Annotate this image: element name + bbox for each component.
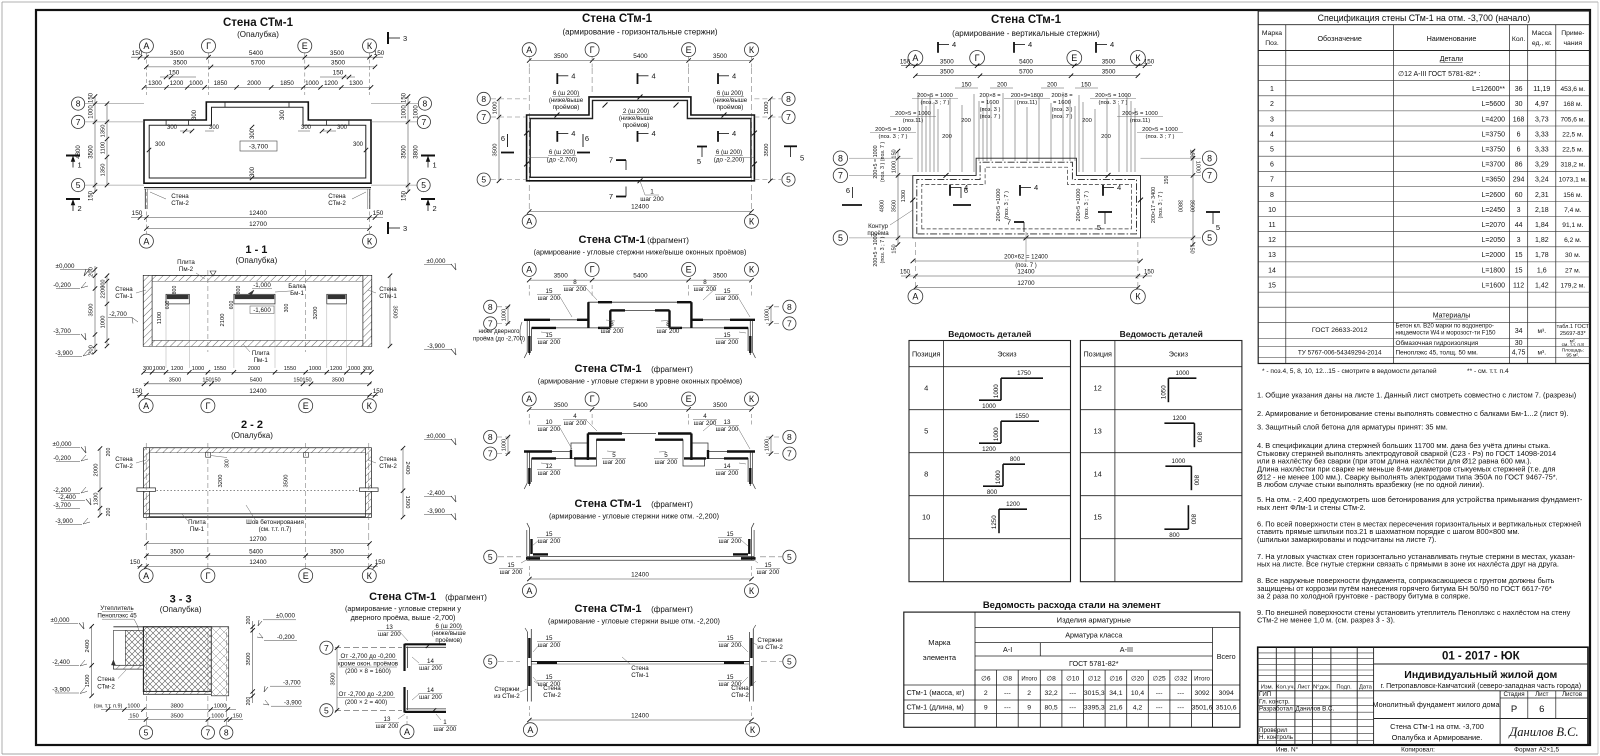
svg-text:3500: 3500: [1102, 68, 1116, 75]
svg-text:1850: 1850: [214, 80, 228, 87]
svg-text:2400: 2400: [404, 462, 410, 475]
svg-text:Стена СТм-1: Стена СТм-1: [369, 591, 436, 603]
svg-text:1000: 1000: [153, 366, 165, 372]
svg-text:8: 8: [423, 99, 428, 109]
svg-text:Данилов В.С.: Данилов В.С.: [1508, 725, 1578, 739]
svg-text:8: 8: [703, 279, 707, 286]
svg-text:800: 800: [236, 286, 242, 295]
svg-text:(фрагмент): (фрагмент): [647, 236, 689, 245]
stage sheet cells: [1500, 697, 1588, 699]
svg-text:2: 2: [78, 204, 82, 213]
svg-text:9: 9: [1027, 705, 1031, 712]
svg-text:300: 300: [301, 125, 312, 131]
svg-text:(поз. 3 ): (поз. 3 ): [1052, 107, 1073, 113]
svg-text:200: 200: [942, 134, 952, 140]
svg-text:4: 4: [1028, 40, 1032, 49]
svg-text:2: 2: [1270, 101, 1274, 108]
svg-text:Изм.: Изм.: [1261, 684, 1274, 690]
svg-text:Контур: Контур: [868, 223, 888, 230]
svg-text:Пеноплэкс 45: Пеноплэкс 45: [97, 613, 137, 620]
svg-text:2 - 2: 2 - 2: [241, 419, 263, 431]
svg-text:Опалубка и Армирование.: Опалубка и Армирование.: [1392, 733, 1483, 742]
svg-text:3,24: 3,24: [1535, 177, 1549, 184]
svg-text:179,2 м.: 179,2 м.: [1560, 282, 1585, 289]
section 2-2 concrete joint dotted line: [150, 490, 366, 492]
svg-text:7: 7: [609, 156, 613, 165]
svg-text:150: 150: [293, 377, 302, 383]
drawing B left vdim: [498, 99, 500, 181]
fragment B3 thin profile lower: [532, 440, 749, 482]
svg-text:-0,200: -0,200: [53, 455, 71, 462]
svg-text:Дата: Дата: [1359, 684, 1373, 690]
svg-text:300: 300: [280, 109, 286, 120]
svg-text:A-III: A-III: [1120, 645, 1133, 654]
svg-text:3500: 3500: [332, 377, 344, 383]
svg-text:проёма (до -2,700): проёма (до -2,700): [473, 337, 525, 343]
svg-text:2100: 2100: [220, 314, 226, 327]
svg-text:200: 200: [961, 118, 971, 124]
svg-text:15: 15: [508, 562, 515, 569]
svg-text:5400: 5400: [1019, 58, 1033, 65]
svg-text:1850: 1850: [280, 80, 294, 87]
svg-text:-3,900: -3,900: [427, 508, 445, 515]
svg-text:5: 5: [421, 180, 426, 190]
section 1-1 bottom axis circles: [139, 399, 153, 413]
dimension row 2 (3500 5700 3500): [146, 66, 375, 68]
svg-text:Стержни: Стержни: [757, 637, 783, 644]
drawing C wall contour dash-dot: [917, 162, 1137, 234]
svg-text:Разработал: Разработал: [1259, 706, 1293, 713]
svg-text:9: 9: [984, 705, 988, 712]
svg-text:1: 1: [78, 161, 82, 170]
svg-text:15: 15: [1515, 267, 1523, 274]
svg-text:2000: 2000: [247, 80, 261, 87]
svg-text:3500: 3500: [940, 58, 954, 65]
svg-text:150: 150: [129, 713, 138, 719]
svg-text:(шпильки замаркированы и подсч: (шпильки замаркированы и подсчитаны на л…: [1257, 535, 1436, 544]
drawing B axis row top: [522, 43, 536, 57]
svg-text:5: 5: [838, 233, 843, 243]
section 3-3 left STm-2 stub: [113, 665, 143, 669]
svg-text:∅16: ∅16: [1109, 676, 1122, 683]
svg-text:3500: 3500: [713, 53, 728, 60]
section 1-1 left vertical dims: [94, 266, 96, 353]
svg-text:3500: 3500: [554, 273, 569, 280]
svg-text:(Опалубка): (Опалубка): [160, 605, 202, 614]
svg-text:12400: 12400: [249, 388, 267, 395]
section flag 3 bottom right: [387, 222, 389, 234]
svg-text:200: 200: [997, 82, 1008, 88]
svg-text:L=2450: L=2450: [1481, 207, 1505, 214]
svg-text:200: 200: [106, 448, 112, 457]
svg-text:150: 150: [211, 377, 220, 383]
svg-text:1300: 1300: [901, 190, 907, 202]
svg-text:1,84: 1,84: [1535, 222, 1549, 229]
svg-text:300: 300: [143, 366, 152, 372]
svg-text:15: 15: [724, 332, 731, 339]
svg-text:150: 150: [132, 388, 143, 395]
svg-text:6 (ш 200): 6 (ш 200): [716, 149, 742, 156]
svg-text:4: 4: [924, 384, 928, 393]
svg-text:5: 5: [488, 657, 493, 667]
svg-text:6: 6: [501, 134, 505, 143]
fragment B3 end verticals: [524, 452, 527, 490]
svg-text:-3,700: -3,700: [283, 680, 301, 687]
svg-text:3092: 3092: [1194, 690, 1209, 697]
svg-text:шаг 200: шаг 200: [694, 420, 717, 427]
svg-text:СТм-1: СТм-1: [115, 293, 133, 300]
svg-text:1000: 1000: [214, 703, 226, 709]
svg-text:7: 7: [206, 728, 211, 738]
svg-text:7: 7: [488, 319, 493, 329]
svg-text:6 (ш 200): 6 (ш 200): [553, 90, 579, 97]
svg-text:Стена: Стена: [97, 676, 115, 683]
svg-text:1200: 1200: [1173, 415, 1187, 422]
svg-text:ГОСТ 26633-2012: ГОСТ 26633-2012: [1312, 327, 1368, 334]
svg-text:Е: Е: [686, 45, 692, 55]
svg-text:шаг 200: шаг 200: [757, 569, 780, 576]
svg-text:300: 300: [101, 280, 107, 289]
svg-text:∅12 A-III ГОСТ 5781-82* :: ∅12 A-III ГОСТ 5781-82* :: [1398, 71, 1480, 78]
dimension row 4 (1300 1200 1000 1850 2000 1850 1000 1200 1300): [144, 86, 371, 88]
svg-text:Стена СТм-1: Стена СТм-1: [223, 17, 294, 29]
fragment B5 vertical bars left: [527, 632, 529, 702]
svg-text:150: 150: [402, 190, 408, 201]
svg-text:1750: 1750: [1017, 370, 1031, 377]
svg-text:Е: Е: [303, 401, 309, 411]
svg-text:21,6: 21,6: [1109, 705, 1122, 712]
svg-text:5400: 5400: [249, 50, 264, 57]
svg-text:3200: 3200: [313, 307, 319, 320]
svg-text:7: 7: [488, 449, 493, 459]
svg-text:12700: 12700: [249, 221, 267, 228]
svg-text:А: А: [527, 725, 533, 735]
svg-text:Спецификация стены СТм-1 на от: Спецификация стены СТм-1 на отм. -3,700 …: [1318, 13, 1531, 23]
svg-text:10,4: 10,4: [1131, 690, 1144, 697]
svg-text:1000: 1000: [1195, 161, 1201, 173]
svg-text:К: К: [367, 571, 373, 581]
fragment G corner bars upper: [403, 644, 405, 671]
svg-text:1300: 1300: [148, 80, 162, 87]
svg-text:К: К: [367, 236, 373, 246]
svg-text:34,1: 34,1: [1109, 690, 1122, 697]
svg-text:15: 15: [1515, 252, 1523, 259]
svg-text:1: 1: [650, 189, 654, 196]
svg-text:От -2,700 до -2,200: От -2,700 до -2,200: [339, 691, 395, 698]
svg-text:1000: 1000: [502, 439, 508, 451]
svg-text:К: К: [749, 586, 755, 596]
svg-text:3500: 3500: [89, 304, 95, 317]
svg-text:8: 8: [786, 94, 791, 104]
svg-text:элемента: элемента: [923, 653, 957, 662]
svg-text:шаг 200: шаг 200: [419, 665, 442, 672]
svg-text:∅6: ∅6: [981, 676, 991, 683]
svg-text:Стадия: Стадия: [1503, 691, 1524, 698]
svg-text:4: 4: [952, 40, 956, 49]
svg-text:-3,700: -3,700: [53, 502, 71, 509]
svg-text:30: 30: [1515, 340, 1523, 347]
svg-text:12400: 12400: [249, 559, 267, 566]
svg-text:(Опалубка): (Опалубка): [231, 431, 273, 440]
title block code field: [1374, 663, 1588, 665]
section 1-1 bottom slab band: [144, 340, 372, 342]
svg-text:1350: 1350: [101, 125, 107, 138]
svg-text:∅20: ∅20: [1131, 676, 1144, 683]
svg-text:(до -2,200): (до -2,200): [714, 157, 744, 164]
svg-text:3500: 3500: [246, 653, 252, 666]
svg-text:= 1600: = 1600: [981, 100, 999, 106]
svg-text:(ниже/выше: (ниже/выше: [713, 97, 748, 104]
svg-text:L=5600: L=5600: [1481, 101, 1505, 108]
svg-text:Формат А2×1,5: Формат А2×1,5: [1514, 747, 1559, 754]
svg-text:7: 7: [481, 112, 486, 122]
svg-text:(поз.11): (поз.11): [1130, 118, 1151, 124]
svg-text:(фрагмент): (фрагмент): [651, 605, 693, 614]
svg-text:шаг 200: шаг 200: [538, 470, 561, 477]
svg-text:7: 7: [76, 117, 81, 127]
svg-text:8: 8: [924, 470, 928, 479]
svg-text:Стена: Стена: [379, 286, 397, 293]
svg-text:1100: 1100: [101, 142, 107, 154]
svg-text:Стена СТм-1: Стена СТм-1: [574, 498, 641, 510]
svg-text:5: 5: [800, 154, 804, 163]
svg-text:А: А: [526, 265, 532, 275]
svg-text:Стена: Стена: [328, 193, 346, 200]
svg-text:-1,000: -1,000: [253, 282, 271, 289]
svg-text:3500: 3500: [170, 548, 184, 555]
svg-text:3,33: 3,33: [1535, 147, 1549, 154]
svg-text:Лист: Лист: [1535, 691, 1549, 698]
svg-text:12400: 12400: [249, 210, 267, 217]
section 1-1 right wall hatched: [363, 276, 372, 346]
section 2-2 top notches at axes: [206, 453, 211, 458]
svg-text:3500: 3500: [713, 402, 728, 409]
svg-text:1200: 1200: [171, 366, 183, 372]
svg-text:6: 6: [1270, 162, 1274, 169]
svg-text:8: 8: [787, 432, 792, 442]
svg-text:3 - 3: 3 - 3: [170, 594, 192, 606]
svg-text:L=2000: L=2000: [1481, 252, 1505, 259]
svg-text:5: 5: [76, 180, 81, 190]
svg-text:150: 150: [130, 559, 141, 566]
svg-text:А: А: [526, 586, 532, 596]
svg-text:200×5 =1000: 200×5 =1000: [996, 189, 1002, 222]
wall plan recess notches: [165, 120, 167, 125]
svg-text:3,33: 3,33: [1535, 131, 1549, 138]
svg-text:3500: 3500: [402, 145, 408, 159]
svg-text:Позиция: Позиция: [912, 350, 941, 359]
svg-text:шаг 200: шаг 200: [657, 328, 680, 335]
section 1-1 left wall hatched: [144, 276, 153, 346]
svg-text:шаг 200: шаг 200: [376, 723, 399, 730]
svg-text:м³.: м³.: [1538, 328, 1547, 335]
svg-text:-2,700: -2,700: [109, 311, 127, 318]
section 2-2 bottom dim rows: [146, 543, 369, 545]
svg-text:15: 15: [724, 288, 731, 295]
svg-text:L=2600: L=2600: [1481, 192, 1505, 199]
svg-text:1000: 1000: [993, 384, 1000, 398]
svg-text:Итого: Итого: [1194, 677, 1210, 683]
svg-text:150: 150: [89, 92, 95, 103]
svg-text:15: 15: [546, 531, 553, 538]
svg-text:∅8: ∅8: [1046, 676, 1056, 683]
window opening 3: [327, 294, 347, 304]
svg-text:---: ---: [1177, 705, 1184, 712]
flag 5 drawing C inner: [1098, 211, 1112, 213]
svg-text:3094: 3094: [1219, 690, 1234, 697]
svg-text:3500: 3500: [1102, 58, 1116, 65]
svg-text:±0,000: ±0,000: [276, 613, 295, 620]
left vertical dims: [94, 96, 96, 192]
svg-text:шаг 200: шаг 200: [655, 459, 678, 466]
svg-text:34: 34: [1515, 328, 1523, 335]
svg-text:3: 3: [403, 224, 407, 233]
svg-text:1000: 1000: [348, 366, 360, 372]
svg-text:А: А: [143, 236, 149, 246]
svg-text:150: 150: [1144, 270, 1155, 276]
svg-text:2. Армирование и бетонирование: 2. Армирование и бетонирование стены вып…: [1257, 409, 1569, 418]
svg-text:800: 800: [1010, 456, 1021, 463]
svg-text:К: К: [367, 41, 373, 51]
svg-text:3500: 3500: [169, 377, 181, 383]
svg-text:15: 15: [546, 674, 553, 681]
svg-text:8: 8: [76, 99, 81, 109]
svg-text:300: 300: [250, 128, 256, 139]
section 3-3 axis dashed lines: [145, 632, 147, 726]
svg-text:200×62 = 12400: 200×62 = 12400: [1004, 255, 1048, 261]
svg-text:6: 6: [585, 134, 589, 143]
svg-text:К: К: [1135, 292, 1141, 302]
svg-text:СТм-2: СТм-2: [115, 463, 133, 470]
svg-text:200: 200: [1047, 82, 1058, 88]
svg-text:3500: 3500: [554, 53, 569, 60]
svg-text:-2,400: -2,400: [52, 659, 70, 666]
svg-text:шаг 200: шаг 200: [378, 631, 401, 638]
section 1-1 body rectangle: [144, 276, 372, 346]
svg-text:табл.1 ГОСТ: табл.1 ГОСТ: [1557, 324, 1590, 330]
svg-text:13: 13: [1268, 252, 1276, 259]
svg-text:2400: 2400: [85, 640, 91, 653]
window opening 1: [166, 294, 189, 304]
svg-text:15: 15: [765, 562, 772, 569]
svg-text:14: 14: [1094, 470, 1102, 479]
drawing B bottom axis circles: [522, 214, 536, 228]
drawing C right circles and dims: [1202, 151, 1216, 165]
svg-text:7: 7: [786, 112, 791, 122]
svg-text:Е: Е: [686, 394, 692, 404]
svg-text:Стена СТм-1: Стена СТм-1: [578, 234, 645, 246]
title block object name: [1374, 718, 1501, 720]
svg-text:за 2 раза по холодной грунтовк: за 2 раза по холодной грунтовке - раство…: [1257, 592, 1470, 601]
svg-text:Обмазочная гидроизоляция: Обмазочная гидроизоляция: [1396, 339, 1479, 347]
svg-text:300: 300: [363, 366, 372, 372]
svg-text:15: 15: [1094, 513, 1102, 522]
svg-text:Плита: Плита: [177, 259, 195, 266]
svg-text:Стена: Стена: [543, 685, 561, 692]
svg-text:1550: 1550: [214, 366, 226, 372]
svg-text:Н. контроль: Н. контроль: [1259, 734, 1293, 741]
svg-text:Стена СТм-1: Стена СТм-1: [574, 603, 641, 615]
svg-text:±0,000: ±0,000: [53, 441, 72, 448]
svg-text:15: 15: [727, 674, 734, 681]
svg-text:(Опалубка): (Опалубка): [236, 256, 278, 265]
svg-text:8: 8: [488, 432, 493, 442]
svg-text:5700: 5700: [251, 60, 266, 67]
svg-text:15: 15: [1268, 282, 1276, 289]
svg-text:Пм-1: Пм-1: [190, 526, 205, 533]
svg-text:Стена СТм-1 на отм. -3,700: Стена СТм-1 на отм. -3,700: [1390, 722, 1484, 731]
svg-text:2000: 2000: [248, 366, 260, 372]
section 3-3 left dims: [91, 626, 93, 696]
svg-text:Пеноплэкс 45, толщ. 50 мм.: Пеноплэкс 45, толщ. 50 мм.: [1396, 350, 1479, 357]
section flag 2 right: [421, 198, 435, 200]
svg-text:200×5 = 1000: 200×5 = 1000: [895, 111, 931, 117]
svg-text:L=3750: L=3750: [1481, 131, 1505, 138]
svg-text:(поз. 3 ; 7 ): (поз. 3 ; 7 ): [1158, 191, 1164, 218]
svg-text:∅10: ∅10: [1066, 676, 1079, 683]
svg-text:1000: 1000: [211, 713, 223, 719]
svg-text:1 - 1: 1 - 1: [245, 244, 267, 256]
svg-text:4: 4: [1034, 183, 1038, 192]
svg-text:СТм-1 (длина, м): СТм-1 (длина, м): [907, 703, 964, 712]
svg-text:---: ---: [1156, 690, 1163, 697]
svg-text:200: 200: [246, 697, 252, 706]
svg-text:95 м².: 95 м².: [1566, 352, 1579, 358]
svg-text:Всего: Всего: [1217, 652, 1236, 661]
svg-text:2 (ш 200): 2 (ш 200): [623, 108, 649, 115]
svg-text:5: 5: [612, 452, 616, 459]
svg-text:1000: 1000: [995, 470, 1002, 484]
fragment B2 left circles 8 7: [484, 300, 497, 313]
svg-text:±0,000: ±0,000: [51, 617, 70, 624]
svg-text:N°док.: N°док.: [1313, 684, 1331, 690]
svg-text:1000: 1000: [982, 403, 996, 410]
svg-text:Монолитный фундамент жилого до: Монолитный фундамент жилого дома: [1373, 700, 1500, 709]
svg-text:-0,200: -0,200: [277, 634, 295, 641]
svg-text:2: 2: [433, 204, 437, 213]
fragment B2 thick corner bars: [524, 319, 550, 321]
svg-text:Стена СТм-1: Стена СТм-1: [574, 363, 641, 375]
section 1-1 left elevation marks: [210, 271, 216, 276]
svg-text:5: 5: [786, 175, 791, 185]
svg-text:1000: 1000: [1176, 370, 1190, 377]
svg-text:300: 300: [337, 125, 348, 131]
fragment G corner bars lower: [403, 687, 405, 713]
svg-text:1050: 1050: [1160, 385, 1167, 399]
section 3-3 top slab lines: [113, 626, 228, 628]
svg-text:(фрагмент): (фрагмент): [651, 365, 693, 374]
svg-text:150: 150: [961, 82, 972, 88]
svg-text:150: 150: [374, 50, 385, 57]
svg-text:К: К: [749, 265, 755, 275]
drawing B right circles 8 7 5: [782, 92, 795, 105]
fragment B4 axis circles A K: [522, 584, 536, 598]
svg-text:7: 7: [1270, 177, 1274, 184]
section 2-2 bottom axis circles: [139, 569, 153, 583]
svg-text:14: 14: [427, 687, 434, 694]
svg-text:300: 300: [155, 142, 166, 148]
drawing C dim row 2: [915, 75, 1138, 77]
svg-text:15: 15: [727, 635, 734, 642]
svg-text:30 м.: 30 м.: [1565, 252, 1581, 259]
window opening 2: [234, 294, 275, 304]
svg-text:294: 294: [1513, 177, 1525, 184]
svg-text:800: 800: [987, 489, 998, 496]
svg-text:шаг 200: шаг 200: [564, 286, 587, 293]
fragment B2 stepped thin profile upper: [527, 302, 752, 320]
svg-text:см. т.т. п.8: см. т.т. п.8: [1562, 342, 1585, 348]
svg-text:5: 5: [787, 552, 792, 562]
